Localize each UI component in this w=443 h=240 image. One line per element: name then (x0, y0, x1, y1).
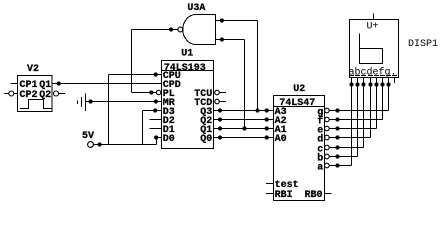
svg-text:V2: V2 (27, 64, 39, 75)
svg-text:U1: U1 (181, 48, 193, 59)
svg-text:U2: U2 (293, 84, 305, 95)
svg-text:U+: U+ (367, 22, 379, 33)
svg-text:A0: A0 (275, 134, 287, 145)
svg-text:RB0: RB0 (304, 190, 322, 201)
svg-text:RBI: RBI (275, 190, 293, 201)
svg-text:abcdefg.: abcdefg. (349, 67, 397, 79)
svg-text:5V: 5V (82, 131, 94, 142)
svg-text:Q0: Q0 (200, 134, 212, 145)
svg-text:DISP1: DISP1 (408, 39, 438, 50)
svg-text:a: a (317, 162, 323, 173)
svg-text:D0: D0 (163, 134, 175, 145)
svg-text:U3A: U3A (187, 3, 205, 14)
